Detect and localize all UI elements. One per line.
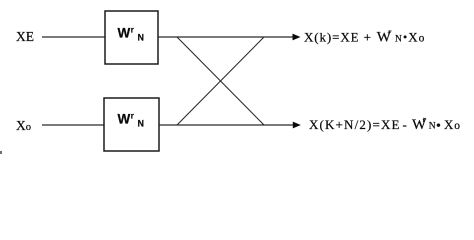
box W^r_N (top multiplier) (105, 11, 158, 64)
svg-text:•: • (436, 119, 441, 134)
svg-text:N: N (138, 119, 145, 129)
svg-text:XE: XE (16, 29, 34, 44)
label W^r_N in bottom box (118, 112, 145, 129)
wire top box to top output arrow (158, 36, 294, 38)
output text X(K+N/2)=XE - W^r_N . Xo (309, 114, 461, 134)
wire cross diagonal top-to-bottom (177, 37, 264, 125)
svg-text:W: W (118, 26, 131, 41)
arrowhead bottom output (293, 122, 301, 129)
svg-text:N: N (138, 33, 145, 43)
svg-text:Xo: Xo (408, 30, 425, 45)
label W^r_N in top box (118, 26, 145, 43)
arrowhead top output (293, 34, 301, 41)
svg-text:N: N (395, 34, 402, 44)
output text X(k)=XE + W^r_N . Xo (304, 26, 425, 45)
wire cross diagonal bottom-to-top (177, 37, 264, 125)
svg-text:r: r (131, 112, 134, 121)
svg-text:N: N (429, 122, 436, 132)
svg-text:•: • (403, 30, 407, 44)
wire Xo input to bottom box (42, 124, 104, 126)
svg-text:X(K+N/2)=XE: X(K+N/2)=XE (309, 117, 401, 132)
svg-text:r: r (131, 26, 134, 35)
box W^r_N (bottom multiplier) (104, 98, 159, 151)
svg-text:W: W (118, 112, 131, 127)
svg-text:-: - (403, 117, 407, 132)
svg-text:X(k)=XE +: X(k)=XE + (304, 30, 372, 45)
svg-text:Xo: Xo (444, 117, 461, 132)
stray mark bottom-left corner (0, 151, 2, 154)
wire XE input to top box (42, 36, 105, 38)
wire bottom box to bottom output arrow (159, 124, 294, 126)
